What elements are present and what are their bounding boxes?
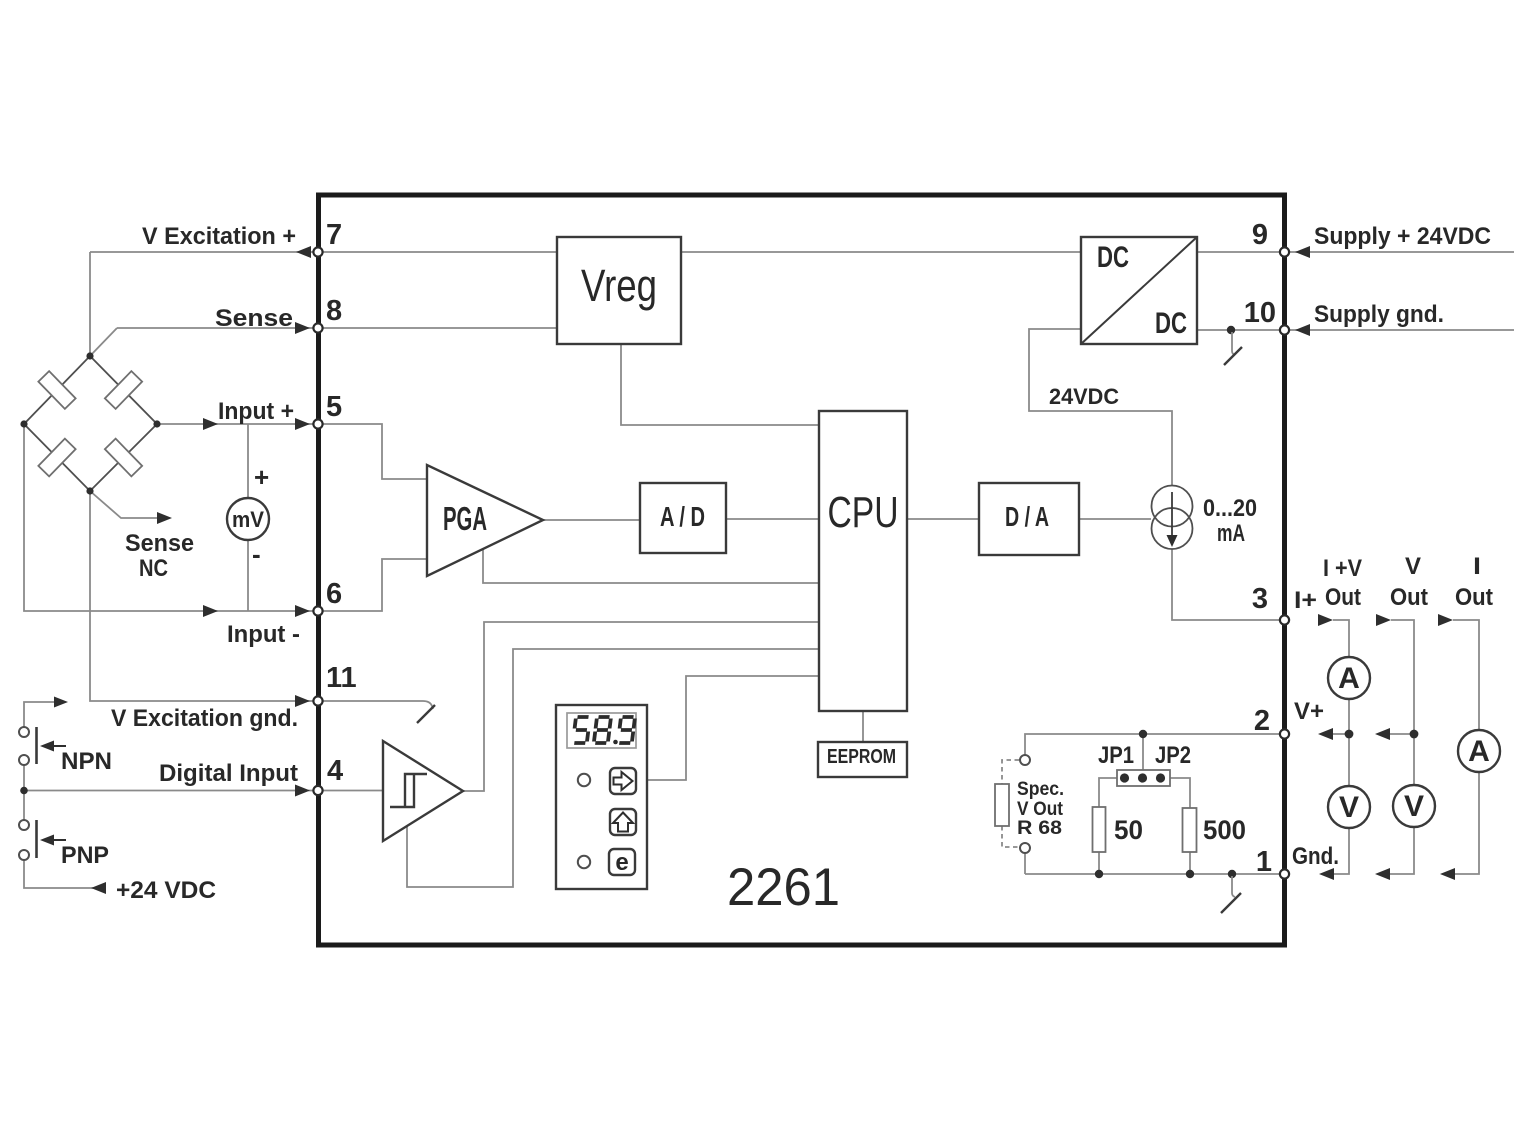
svg-text:Digital Input: Digital Input (159, 760, 298, 787)
terminal spec bottom (1020, 843, 1030, 853)
wire pin7 to Vreg (V Excitation + net, y=252) (90, 251, 557, 253)
wire NPN to V exc gnd (24, 702, 54, 727)
label Supply gnd. (1314, 301, 1444, 328)
D/A converter (979, 483, 1079, 555)
label mV minus (252, 539, 261, 569)
svg-text:1: 1 (1256, 846, 1272, 878)
svg-text:CPU: CPU (828, 488, 899, 537)
svg-text:e: e (615, 849, 628, 876)
label Input + (218, 398, 294, 425)
svg-text:10: 10 (1244, 297, 1276, 329)
EEPROM (818, 742, 907, 777)
mV source U-mv (227, 498, 269, 540)
svg-text:Vreg: Vreg (581, 260, 657, 311)
display module (556, 705, 647, 889)
wire CPU to EEPROM (862, 711, 864, 742)
7-segment window 58.9 (567, 713, 636, 748)
svg-text:mA: mA (1217, 520, 1245, 547)
arrow col3 bottom (1440, 868, 1455, 880)
wire mV branch (247, 424, 249, 611)
pin 7 (313, 247, 322, 256)
svg-text:A: A (1338, 662, 1360, 695)
wire PGA to A/D (543, 519, 640, 521)
resistor 50 (1093, 807, 1144, 852)
svg-text:NPN: NPN (61, 748, 112, 775)
terminal spec top (1020, 755, 1030, 765)
svg-text:Gnd.: Gnd. (1292, 843, 1339, 870)
svg-text:0...20: 0...20 (1203, 495, 1257, 522)
wire Vreg to DC/DC (y=252) (681, 251, 1081, 253)
CPU U2 (819, 411, 907, 711)
label NPN (61, 748, 112, 775)
arrow into pin5 (295, 418, 310, 430)
svg-text:Out: Out (1325, 584, 1361, 611)
wire spec V out dashed branch (1002, 760, 1019, 847)
wire Input- (to pin 6) (24, 424, 313, 611)
wire D/A to current source (1079, 518, 1151, 520)
wire A/D to CPU (726, 518, 819, 520)
ground switch pin1 (1221, 876, 1241, 913)
label mV plus (254, 462, 269, 492)
svg-text:R 68: R 68 (1017, 818, 1062, 839)
wire pin 2 net (1025, 734, 1280, 755)
svg-text:JP2: JP2 (1155, 742, 1191, 769)
pin number 6 (326, 578, 342, 610)
wire DC/DC to pin 10 (1197, 329, 1280, 331)
pin 1 (1280, 869, 1289, 878)
wire jumper drop (1142, 734, 1144, 770)
svg-text:Supply gnd.: Supply gnd. (1314, 301, 1444, 328)
arrow col2 mid (1375, 728, 1390, 740)
pin number 8 (326, 295, 342, 327)
NPN switch (19, 727, 66, 765)
label I Out (1455, 553, 1493, 611)
button right-arrow (610, 768, 636, 794)
junction dot R500 gnd (1186, 870, 1194, 878)
svg-text:+: + (254, 462, 269, 492)
wire jumper right leg to R500 (1170, 778, 1190, 808)
svg-text:I: I (1473, 553, 1481, 580)
svg-text:Supply + 24VDC: Supply + 24VDC (1314, 223, 1491, 250)
label PNP (61, 842, 109, 869)
svg-text:V: V (1339, 791, 1359, 824)
LED 2 (578, 856, 590, 868)
node bridge top (86, 352, 93, 359)
label Sense (215, 305, 293, 332)
pin number 5 (326, 391, 342, 423)
arrow col2 top (1376, 614, 1391, 626)
wire current source to pin 3 (1172, 549, 1280, 620)
svg-text:V: V (1405, 553, 1421, 580)
digit 5 (573, 717, 590, 743)
jumper block JP1 JP2 (1117, 770, 1170, 786)
pin 6 (313, 606, 322, 615)
label Input - (227, 621, 300, 648)
svg-text:V+: V+ (1294, 698, 1324, 725)
label JP1 (1098, 742, 1134, 769)
resistor spec V out R68 (995, 784, 1009, 826)
svg-text:V Excitation +: V Excitation + (142, 223, 296, 250)
svg-text:6: 6 (326, 578, 342, 610)
ammeter A col1 (1328, 657, 1370, 699)
svg-text:9: 9 (1252, 219, 1268, 251)
svg-text:2261: 2261 (727, 858, 840, 917)
svg-text:8: 8 (326, 295, 342, 327)
junction dot pin10 wire (1227, 326, 1235, 334)
wire R500 bottom (1189, 852, 1191, 874)
DC/DC converter U3 (1081, 237, 1197, 344)
wire V Excitation + drop to bridge top (89, 252, 91, 356)
svg-text:7: 7 (326, 219, 342, 251)
label I+V Out (1323, 555, 1362, 611)
main enclosure border (319, 195, 1285, 945)
ground switch pin11 (417, 701, 435, 723)
svg-text:EEPROM: EEPROM (827, 746, 896, 768)
label Gnd. (1292, 843, 1339, 870)
bridge sensor arms (24, 356, 157, 491)
svg-text:11: 11 (326, 662, 357, 694)
digit 8 (594, 717, 611, 743)
junction dot col2 (1410, 730, 1419, 739)
arrow into pin9 (1295, 246, 1310, 258)
svg-text:Out: Out (1455, 584, 1493, 611)
wire V Excitation gnd. (bridge bottom to pin 11) (90, 491, 313, 701)
wire pin 5 to PGA upper input (318, 424, 427, 479)
svg-text:3: 3 (1252, 583, 1268, 615)
svg-text:Input +: Input + (218, 398, 294, 425)
wire Supply gnd. external (1290, 329, 1514, 331)
resistor bridge bottom-right (105, 439, 142, 477)
wire Supply +24VDC external (1290, 251, 1514, 253)
wire comparator lower branch to CPU (407, 649, 819, 887)
pin 5 (313, 419, 322, 428)
svg-text:DC: DC (1155, 307, 1187, 340)
resistor bridge top-left (38, 371, 75, 409)
wire DC/DC 24VDC to current source (1029, 329, 1172, 485)
svg-text:NC: NC (139, 555, 168, 582)
wire Sense net (pin 8 to Vreg) (117, 327, 557, 329)
label V Excitation gnd. (111, 705, 298, 732)
resistor bridge bottom-left (38, 439, 75, 477)
wire jumper left leg to R50 (1099, 778, 1117, 807)
digit 9 (618, 717, 635, 743)
arrow into pin10 (1295, 324, 1310, 336)
svg-text:V: V (1404, 790, 1424, 823)
arrow into pin4 (295, 785, 310, 797)
wire R50 bottom (1098, 852, 1100, 874)
junction dot pin1 gnd (1228, 870, 1236, 878)
arrow NPN to Vexc gnd (54, 697, 68, 708)
svg-text:Sense: Sense (125, 530, 194, 557)
wire pin 6 to PGA lower input (318, 559, 427, 611)
current source 0..20mA (1152, 486, 1193, 550)
label 0...20 mA (1203, 495, 1257, 547)
svg-text:-: - (252, 539, 261, 569)
pin 9 (1280, 247, 1289, 256)
pin 10 (1280, 325, 1289, 334)
svg-text:A / D: A / D (660, 501, 705, 532)
label +24 VDC (116, 877, 216, 904)
wire Vreg to CPU (621, 344, 819, 425)
pin 3 (1280, 615, 1289, 624)
button up-arrow (610, 809, 636, 835)
Vreg U1 (557, 237, 681, 344)
svg-text:Spec.: Spec. (1017, 779, 1064, 800)
arrow sense nc (157, 512, 172, 524)
svg-text:I +V: I +V (1323, 555, 1362, 582)
svg-text:DC: DC (1097, 241, 1129, 274)
svg-text:+24 VDC: +24 VDC (116, 877, 216, 904)
svg-text:4: 4 (327, 755, 343, 787)
wire Sense diagonal from bridge top (90, 328, 117, 356)
junction dot digital input (20, 787, 28, 795)
arrow col3 top (1438, 614, 1453, 626)
label JP2 (1155, 742, 1191, 769)
pin number 10 (1244, 297, 1276, 329)
label V+ (1294, 698, 1324, 725)
junction dot col1 (1345, 730, 1354, 739)
svg-text:24VDC: 24VDC (1049, 384, 1119, 409)
arrow col1 top (1318, 614, 1333, 626)
wire CPU to D/A (907, 518, 979, 520)
arrow into pin6 (295, 605, 310, 617)
junction dot pin2 wire (1139, 730, 1147, 738)
pin 8 (313, 323, 322, 332)
arrow into pin11 (295, 695, 310, 707)
svg-text:V Out: V Out (1017, 799, 1064, 820)
label Sense NC (125, 530, 194, 582)
wire Input+ (bridge right node to pin 5) (157, 423, 313, 425)
pin number 11 (326, 662, 357, 694)
label Spec. V Out R68 (1017, 779, 1064, 839)
label 2261 (727, 858, 840, 917)
pin number 3 (1252, 583, 1268, 615)
pin number 2 (1254, 705, 1270, 737)
svg-text:5: 5 (326, 391, 342, 423)
button e (609, 849, 635, 876)
comparator with hysteresis (383, 741, 463, 841)
svg-text:50: 50 (1114, 815, 1143, 845)
node bridge left (20, 420, 27, 427)
pin 11 (313, 696, 322, 705)
svg-text:Sense: Sense (215, 305, 293, 332)
pin 2 (1280, 729, 1289, 738)
wire Digital Input (to pin 4) (24, 790, 313, 792)
arrow col1 bottom (1319, 868, 1334, 880)
wire NPN to digital input junction (23, 765, 25, 820)
svg-text:PNP: PNP (61, 842, 109, 869)
PNP switch (19, 820, 66, 860)
pin number 1 (1256, 846, 1272, 878)
svg-text:JP1: JP1 (1098, 742, 1134, 769)
label Digital Input (159, 760, 298, 787)
wire display output to CPU (647, 676, 819, 780)
voltmeter V col2 (1393, 785, 1435, 827)
resistor 500 (1183, 808, 1247, 852)
arrow into pin7 (out) (296, 246, 311, 258)
voltmeter V col1 (1328, 786, 1370, 828)
decimal point (613, 740, 618, 745)
wire pin 4 to comparator (318, 790, 383, 792)
wire Sense NC stub (90, 491, 158, 518)
svg-text:2: 2 (1254, 705, 1270, 737)
wire PGA lower output to CPU (483, 549, 819, 583)
wire PNP to +24VDC (24, 860, 105, 888)
label V Excitation + (142, 223, 296, 250)
node bridge bottom (86, 487, 93, 494)
pin 4 (313, 786, 322, 795)
wire comparator output to CPU (463, 622, 819, 791)
junction dot R50 gnd (1095, 870, 1103, 878)
ground switch pin10 (1224, 332, 1242, 365)
resistor bridge top-right (105, 371, 142, 409)
wire gnd bottom net to pin 1 (1025, 853, 1280, 874)
ammeter A col3 (1458, 730, 1500, 772)
wire I+V Out column (1333, 620, 1349, 874)
label Supply + 24VDC (1314, 223, 1491, 250)
svg-text:500: 500 (1203, 815, 1246, 845)
wire DC/DC to pin 9 (1197, 251, 1280, 253)
arrow mid input- (203, 605, 218, 617)
label I+ (1294, 587, 1317, 614)
svg-text:PGA: PGA (443, 500, 487, 537)
arrow col1 mid (1318, 728, 1333, 740)
label V Out (1390, 553, 1428, 611)
svg-text:D / A: D / A (1005, 501, 1049, 532)
PGA amplifier (427, 465, 543, 576)
svg-text:V Excitation gnd.: V Excitation gnd. (111, 705, 298, 732)
LED 1 (578, 774, 590, 786)
svg-text:Input -: Input - (227, 621, 300, 648)
A/D converter (640, 483, 726, 553)
wire pin 11 to gnd switch (318, 700, 423, 702)
arrow +24VDC (91, 882, 106, 894)
label 24VDC (1049, 384, 1119, 409)
svg-text:A: A (1468, 735, 1490, 768)
svg-text:Out: Out (1390, 584, 1428, 611)
pin number 7 (326, 219, 342, 251)
svg-text:mV: mV (232, 507, 264, 532)
node bridge right (153, 420, 160, 427)
svg-text:I+: I+ (1294, 587, 1317, 614)
wire I Out column (1453, 620, 1479, 874)
arrow into pin8 (295, 322, 310, 334)
pin number 4 (327, 755, 343, 787)
arrow col2 bottom (1375, 868, 1390, 880)
pin number 9 (1252, 219, 1268, 251)
wire V Out column (1390, 620, 1414, 874)
arrow mid input+ (203, 418, 218, 430)
